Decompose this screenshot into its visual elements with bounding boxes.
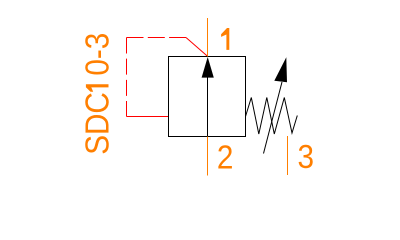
pilot line diagonal (red, solid) bbox=[186, 38, 208, 57]
label SDC10-3 custom digit 1 (rotated, arial-style) bbox=[86, 84, 109, 91]
pilot line into valve left side (red, solid) bbox=[127, 116, 169, 118]
flow arrow head (inside box) bbox=[202, 57, 214, 78]
pilot line dashed vertical (red) bbox=[126, 38, 128, 117]
svg-text:2: 2 bbox=[217, 139, 234, 176]
flow arrow shaft (inside box) bbox=[207, 62, 209, 137]
port line 2 (orange) bbox=[207, 137, 209, 176]
valve body box bbox=[169, 57, 246, 137]
svg-text:0-3: 0-3 bbox=[79, 33, 116, 76]
adjustment arrow head bbox=[274, 57, 287, 82]
pilot line dashed horizontal (red) bbox=[127, 37, 187, 39]
port line 3 (orange) bbox=[287, 136, 289, 175]
svg-text:SDC: SDC bbox=[79, 92, 116, 155]
svg-text:3: 3 bbox=[298, 138, 315, 175]
spring (zigzag) bbox=[246, 98, 298, 135]
adjustment arrow shaft (diagonal) bbox=[264, 82, 283, 154]
port label 1 (custom arial-style digit) bbox=[221, 28, 229, 50]
port line 1 (orange) bbox=[207, 18, 209, 57]
